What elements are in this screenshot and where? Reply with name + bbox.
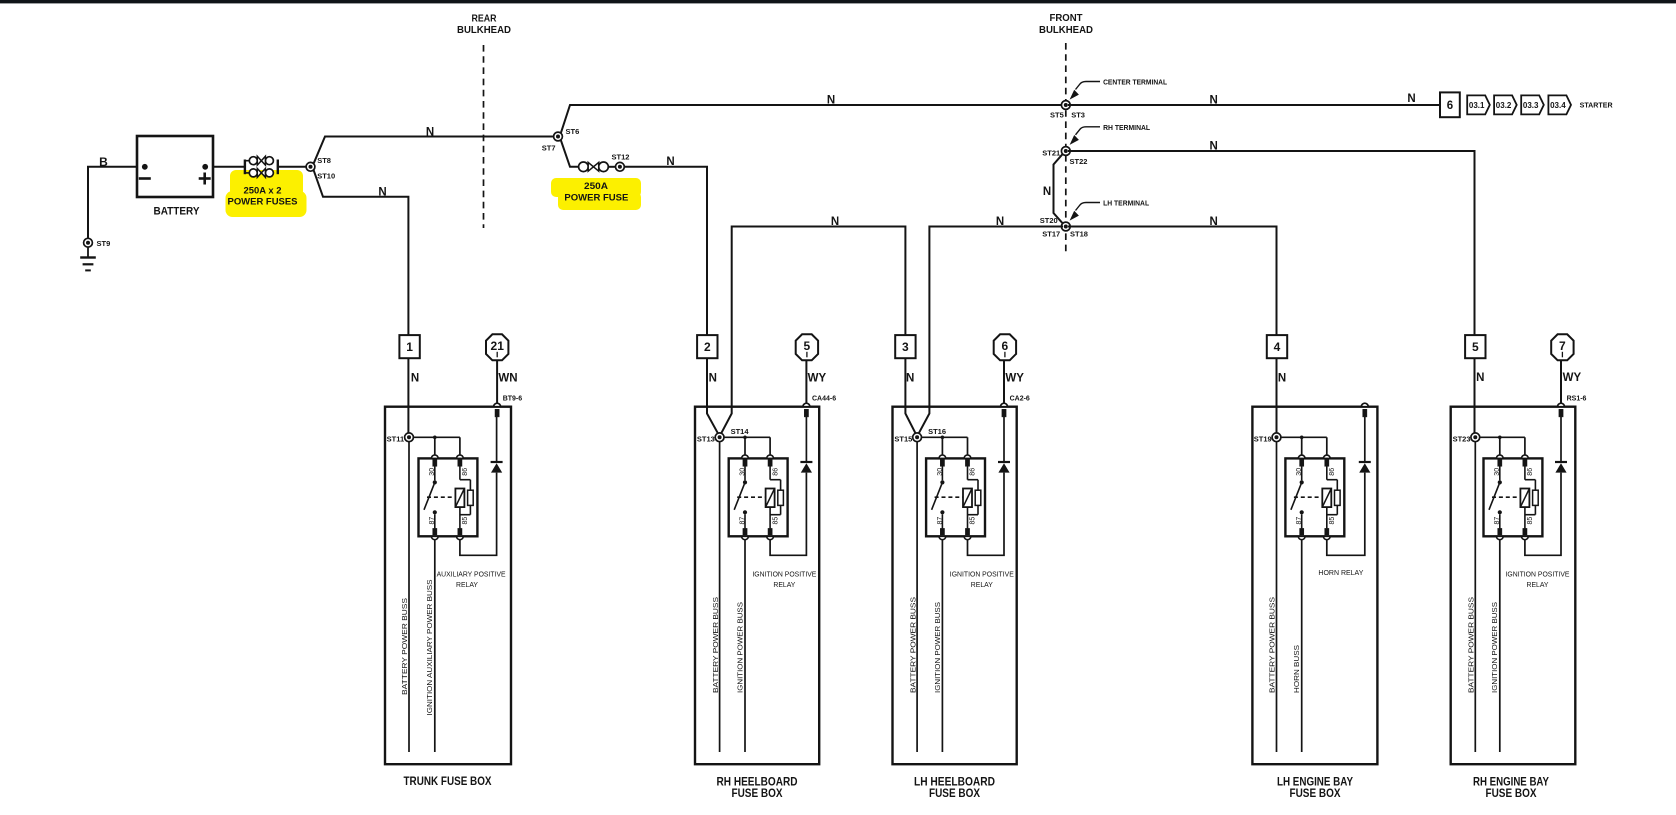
node ST12 [616,162,625,171]
wire fuse to ST12 [608,166,615,168]
svg-text:N: N [1476,372,1484,384]
wire B ground to battery negative [88,167,137,240]
relay coil parallel resistor [468,490,474,505]
junction [1300,436,1304,440]
relay switch contact [1499,466,1501,480]
battery power buss wire [408,442,410,753]
svg-text:03.3: 03.3 [1523,101,1539,110]
wire pin 85 to diode anode [770,473,806,556]
relay pin 85 [965,528,969,535]
svg-text:N: N [378,186,386,198]
relay armature dashed link [737,496,765,498]
relay pin 30 [743,460,747,467]
wire N lh heelboard connector 3 to rh heelboard [720,227,906,436]
svg-text:85: 85 [970,517,977,525]
svg-text:IGNITION POSITIVE: IGNITION POSITIVE [752,570,816,579]
relay switch contact [744,466,746,480]
wire N ST17 to lh heelboard [917,227,1063,436]
relay coil [1326,466,1328,479]
battery power buss wire [1276,442,1278,753]
svg-text:N: N [1278,373,1286,385]
svg-text:HORN BUSS: HORN BUSS [1292,645,1301,693]
diode (auxiliary positive relay) [491,461,503,463]
wire power fuses to ST8 [278,166,307,168]
relay pin 85 [458,528,462,535]
svg-text:ST3: ST3 [1071,111,1085,120]
svg-text:FUSE BOX: FUSE BOX [732,788,783,800]
relay coil parallel resistor [778,490,784,505]
relay pin 86 [1325,460,1329,467]
node ST23 [1471,433,1480,442]
svg-text:RS1-6: RS1-6 [1567,395,1587,402]
relay pin 87 [940,528,944,535]
svg-text:N: N [827,95,835,107]
svg-text:FUSE BOX: FUSE BOX [1290,788,1341,800]
fuse 250A x 2 power fuses [244,160,246,175]
svg-text:ST9: ST9 [97,239,111,248]
svg-text:ST19: ST19 [1254,434,1272,443]
svg-text:85: 85 [462,517,469,525]
battery negative terminal mark [139,177,151,180]
svg-text:IGNITION POWER BUSS: IGNITION POWER BUSS [735,602,744,693]
svg-text:RH TERMINAL: RH TERMINAL [1103,123,1150,132]
relay armature dashed link [1492,496,1520,498]
svg-text:CENTER TERMINAL: CENTER TERMINAL [1103,77,1167,86]
power buss wire from pin 87 [941,540,943,752]
svg-text:85: 85 [1527,517,1534,525]
svg-text:6: 6 [1447,100,1453,112]
svg-text:21: 21 [491,339,505,353]
node ST21/ST22 rh terminal [1061,147,1070,156]
connector 2 [697,335,717,358]
relay pin 30 [1300,460,1304,467]
node ST15 [913,433,922,442]
diode [800,461,812,463]
svg-text:86: 86 [1527,468,1534,476]
svg-text:LH TERMINAL: LH TERMINAL [1103,199,1149,208]
svg-text:LH HEELBOARD: LH HEELBOARD [914,777,995,789]
svg-text:RELAY: RELAY [773,580,795,589]
svg-text:POWER FUSE: POWER FUSE [564,192,628,203]
svg-text:ST7: ST7 [542,144,556,153]
svg-text:86: 86 [970,468,977,476]
svg-text:ST6: ST6 [566,127,580,136]
svg-text:N: N [426,126,434,138]
junction [1498,436,1502,440]
relay terminal bumps [742,455,749,458]
page pointer 03.1 [1467,95,1490,114]
svg-text:IGNITION POSITIVE: IGNITION POSITIVE [950,570,1014,579]
wire N ST20 jog ST21 to ST17 [1054,154,1063,223]
svg-text:ST8: ST8 [317,156,331,165]
relay pin 87 [743,528,747,535]
svg-text:5: 5 [1472,340,1479,354]
wire N connector 3 into box (left V) [905,358,916,436]
relay coil parallel resistor [1533,490,1539,505]
connector 1 [399,335,419,358]
wire N ST10 to connector 1 trunk [314,170,409,335]
wire diode cathode to BT9-6 [496,417,498,462]
relay coil [1524,466,1526,479]
svg-text:N: N [1210,141,1218,153]
wire N ST22 to connector 5 rh engine bay [1068,151,1475,335]
svg-text:N: N [709,373,717,385]
node ST13 [715,433,724,442]
svg-text:03.4: 03.4 [1550,101,1566,110]
svg-text:1: 1 [406,340,413,354]
relay pin 85 [768,528,772,535]
wire pin 85 to diode anode [1525,473,1561,556]
svg-text:N: N [906,373,914,385]
relay terminal bumps [1496,455,1503,458]
svg-text:BATTERY: BATTERY [154,206,201,218]
wire WN connector 21 to BT9-6 [496,360,498,403]
svg-text:ST12: ST12 [612,152,630,161]
svg-text:IGNITION AUXILIARY POWER BUSS: IGNITION AUXILIARY POWER BUSS [425,580,434,716]
highlighter mark 250A POWER FUSE [551,178,641,197]
lh heelboard outline [893,407,1017,765]
svg-text:B: B [99,155,108,169]
svg-text:BATTERY POWER BUSS: BATTERY POWER BUSS [908,597,917,693]
junction [941,436,945,440]
power buss wire from pin 87 [1499,540,1501,752]
svg-text:N: N [1043,186,1051,198]
battery power buss wire [1474,442,1476,753]
svg-text:IGNITION POWER BUSS: IGNITION POWER BUSS [1490,602,1499,693]
wire battery positive to power fuses [213,166,245,168]
svg-text:IGNITION POWER BUSS: IGNITION POWER BUSS [933,602,942,693]
svg-text:BULKHEAD: BULKHEAD [457,24,511,36]
relay terminal bumps [1298,455,1305,458]
svg-text:POWER FUSES: POWER FUSES [228,196,298,207]
lh engine bay outline [1252,407,1377,765]
page pointer 03.2 [1494,95,1517,114]
connector RS1-6 [1558,403,1565,406]
svg-text:REAR: REAR [472,13,497,25]
svg-text:6: 6 [1002,339,1009,353]
front bulkhead dashed line [1065,43,1067,255]
wire pin 85 to diode anode [460,473,497,556]
battery power buss wire [916,442,918,753]
svg-text:03.2: 03.2 [1496,101,1512,110]
relay switch contact [1301,466,1303,480]
svg-text:N: N [666,156,674,168]
node ST17/ST18/ST20 lh terminal [1061,222,1070,231]
svg-text:ST22: ST22 [1070,157,1088,166]
wire diode cathode to connector [1560,417,1562,462]
svg-text:03.1: 03.1 [1469,101,1485,110]
svg-text:FUSE BOX: FUSE BOX [929,788,980,800]
svg-text:WY: WY [1005,373,1024,385]
relay terminal bumps [431,455,438,458]
battery [137,136,213,197]
wire WY connector 6 to CA2-6 [1003,360,1005,403]
svg-text:STARTER: STARTER [1580,101,1614,110]
page pointer 03.3 [1521,95,1544,114]
relay coil parallel resistor [1335,490,1341,505]
relay pin 86 [1523,460,1527,467]
wire ST7 to 250A power fuse [561,140,579,167]
wire N connector 4 to ST19 [1276,358,1278,433]
node ST8/ST10 [306,162,315,171]
wire diode cathode to connector [1003,417,1005,462]
svg-text:LH ENGINE BAY: LH ENGINE BAY [1277,777,1353,789]
lh terminal leader and label [1076,203,1101,211]
relay pin 87 [433,528,437,535]
svg-text:ST13: ST13 [697,434,715,443]
relay switch contact [434,466,436,480]
relay pin 30 [1498,460,1502,467]
connector 5 (engine bay) [1465,335,1485,358]
top border bar [0,0,1676,3]
power buss wire from pin 87 [744,540,746,752]
relay armature dashed link [427,496,455,498]
rear bulkhead dashed line [483,45,485,228]
svg-text:HORN RELAY: HORN RELAY [1318,568,1363,577]
svg-text:ST18: ST18 [1070,230,1088,239]
starter page connector 6 [1440,92,1460,117]
svg-text:BULKHEAD: BULKHEAD [1039,24,1093,36]
ignition auxiliary power buss wire from pin 87 [434,540,436,752]
svg-text:86: 86 [1329,468,1336,476]
relay switch contact [941,466,943,480]
relay terminal bumps [939,455,946,458]
wire ST11 to relay coil [413,436,460,438]
connector bump [1361,403,1368,406]
fuse 250A power fuse [579,162,589,172]
wire node to relay coil [1281,436,1327,438]
relay pin 86 [768,460,772,467]
svg-text:2: 2 [704,340,711,354]
svg-text:ST15: ST15 [894,434,912,443]
svg-text:ST16: ST16 [928,427,946,436]
wire N ST8 to ST7 [314,137,559,164]
svg-text:BATTERY POWER BUSS: BATTERY POWER BUSS [711,597,720,693]
battery positive terminal mark [199,177,211,180]
svg-text:N: N [996,216,1004,228]
wire N connector 5 to ST23 [1474,358,1476,433]
wire N connector 2 into box (left V) [707,358,719,436]
relay pin 86 [458,460,462,467]
svg-text:5: 5 [804,339,811,353]
highlighter mark 250A x 2 POWER FUSES [230,170,303,197]
svg-text:N: N [1210,216,1218,228]
svg-text:7: 7 [1559,339,1566,353]
svg-text:86: 86 [772,468,779,476]
svg-text:N: N [1407,93,1415,105]
svg-text:RELAY: RELAY [1527,580,1549,589]
wire pin 85 to diode anode [968,473,1005,556]
wire node to relay coil [1480,436,1525,438]
svg-text:ST14: ST14 [731,427,750,436]
svg-text:4: 4 [1274,340,1281,354]
wire WY connector 7 to RS1-6 [1560,360,1562,403]
node ST9 [84,238,93,247]
relay pin 30 [433,460,437,467]
diode [1555,461,1567,463]
relay outline [1285,458,1344,536]
diode [998,461,1010,463]
relay pin 85 [1325,528,1329,535]
relay pin 85 [1523,528,1527,535]
center terminal leader and label [1076,82,1101,90]
rh terminal leader and label [1076,127,1101,135]
svg-text:WY: WY [1563,372,1582,384]
svg-text:85: 85 [1329,517,1336,525]
svg-text:BATTERY POWER BUSS: BATTERY POWER BUSS [400,598,409,695]
relay outline [926,458,985,536]
connector 3 [895,335,915,358]
svg-text:ST10: ST10 [317,171,335,180]
wire N ST3 to starter connector 6 [1068,104,1440,106]
svg-text:FRONT: FRONT [1050,12,1084,24]
svg-text:N: N [411,373,419,385]
relay coil [967,466,969,479]
svg-text:RH HEELBOARD: RH HEELBOARD [717,777,798,789]
wire WY connector 5 to CA44-6 [805,360,807,403]
connector CA44-6 [803,403,810,406]
svg-text:IGNITION POSITIVE: IGNITION POSITIVE [1506,570,1570,579]
wire N ST6 to ST5 center terminal [561,105,1063,133]
power buss wire from pin 87 [1301,540,1303,752]
connector 4 [1267,335,1287,358]
junction [433,436,437,440]
connector BT9-6 [494,403,501,406]
ground symbol [87,247,89,258]
svg-text:ST20: ST20 [1040,216,1058,225]
svg-text:BATTERY POWER BUSS: BATTERY POWER BUSS [1268,597,1277,693]
svg-text:RELAY: RELAY [456,580,478,589]
svg-text:RH ENGINE BAY: RH ENGINE BAY [1473,777,1549,789]
svg-text:ST5: ST5 [1050,111,1064,120]
node ST19 [1272,433,1281,442]
diode [1359,461,1371,463]
svg-text:RELAY: RELAY [971,580,993,589]
junction [743,436,747,440]
wire N connector 1 to ST11 [407,358,409,433]
relay outline [419,458,478,536]
rh heelboard outline [695,407,819,765]
wire N ST18 to connector 4 lh engine bay [1068,227,1277,336]
relay pin 87 [1498,528,1502,535]
battery power buss wire [719,442,721,753]
connector 5 (octagon) [796,334,818,360]
svg-text:BT9-6: BT9-6 [503,395,523,402]
relay pin 87 [1300,528,1304,535]
relay outline [1484,458,1543,536]
svg-text:250A x 2: 250A x 2 [244,186,282,197]
svg-text:BATTERY POWER BUSS: BATTERY POWER BUSS [1467,597,1476,693]
page pointer 03.4 [1548,95,1571,114]
wire node to relay coil [921,436,967,438]
node ST11 [405,433,414,442]
svg-text:FUSE BOX: FUSE BOX [1486,788,1537,800]
svg-text:3: 3 [902,340,909,354]
relay pin 86 [965,460,969,467]
wire N ST12 to connector 2 [624,167,707,335]
connector 7 (octagon) [1551,334,1573,360]
wire diode cathode to connector [1364,417,1366,462]
svg-text:86: 86 [462,468,469,476]
connector 21 [486,334,508,360]
svg-text:250A: 250A [584,181,608,192]
svg-text:ST21: ST21 [1042,148,1060,157]
connector 6 (octagon) [994,334,1016,360]
svg-text:TRUNK FUSE BOX: TRUNK FUSE BOX [404,776,492,788]
svg-text:CA44-6: CA44-6 [812,395,836,402]
relay pin 30 [940,460,944,467]
svg-text:CA2-6: CA2-6 [1010,395,1030,402]
wire node to relay coil [724,436,770,438]
relay armature dashed link [1294,496,1322,498]
node ST5/ST3 center terminal [1061,101,1070,110]
relay coil parallel resistor [975,490,981,505]
svg-text:N: N [831,216,839,228]
svg-text:85: 85 [772,517,779,525]
wire diode cathode to connector [805,417,807,462]
svg-text:WY: WY [808,373,827,385]
svg-text:ST17: ST17 [1042,230,1060,239]
svg-text:WN: WN [498,373,517,385]
relay outline [729,458,788,536]
svg-text:AUXILIARY POSITIVE: AUXILIARY POSITIVE [437,570,506,579]
relay coil [769,466,771,479]
svg-text:ST11: ST11 [387,434,405,443]
node ST6/ST7 [554,132,563,141]
trunk fuse box outline [385,407,511,765]
rh engine bay outline [1451,407,1576,765]
relay coil [459,466,461,479]
svg-text:ST23: ST23 [1453,434,1471,443]
relay armature dashed link [935,496,963,498]
connector CA2-6 [1001,403,1008,406]
wire pin 85 to diode anode [1327,473,1365,556]
